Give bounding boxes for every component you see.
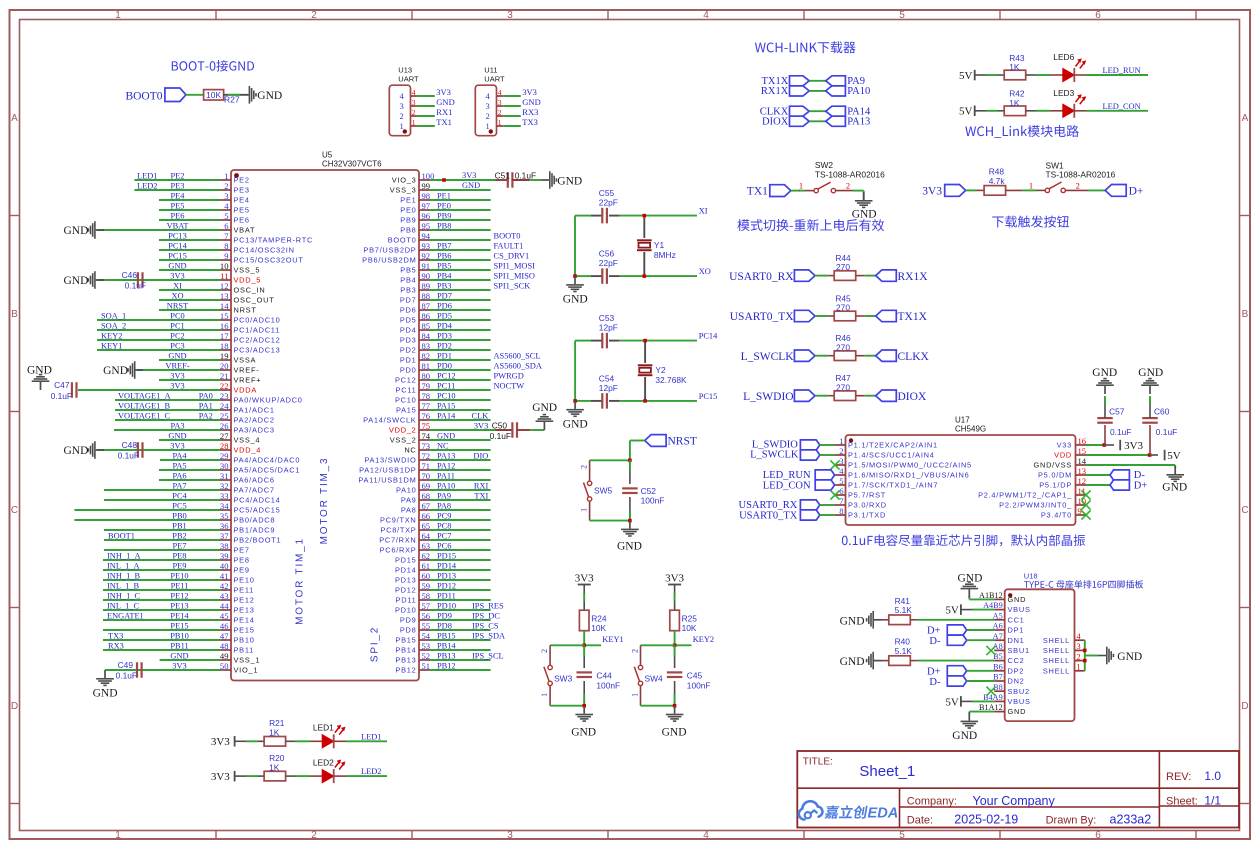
svg-text:2: 2 [839, 446, 843, 456]
port L_SWCLK [741, 350, 815, 363]
svg-text:VDD_5: VDD_5 [234, 276, 262, 285]
U5 pin 9 (PC15/OSC32OUT) wire and labels [159, 251, 304, 265]
svg-text:PA6: PA6 [172, 472, 186, 481]
svg-text:81: 81 [422, 361, 431, 371]
svg-text:51: 51 [422, 661, 431, 671]
svg-text:270: 270 [836, 382, 850, 392]
ground GND below C45 [662, 706, 687, 739]
svg-text:10K: 10K [682, 623, 697, 633]
svg-text:PA3: PA3 [170, 422, 184, 431]
IC U18 TYPE-C connector body [1005, 572, 1144, 722]
U18 pin A8 (SBU1) [993, 642, 1030, 655]
svg-text:VDD_4: VDD_4 [234, 446, 262, 455]
svg-text:PE14: PE14 [170, 612, 189, 621]
svg-text:DIO: DIO [473, 451, 488, 460]
LED LED2 [313, 758, 346, 784]
ground GND at U5 pin 11 [63, 271, 104, 289]
svg-text:R48: R48 [989, 167, 1005, 177]
svg-text:PC2/ADC12: PC2/ADC12 [234, 336, 281, 345]
U18 pin B1A12 (GND) [979, 703, 1026, 716]
svg-text:41: 41 [220, 571, 229, 581]
U5 pin 60 (PD13) wire and labels [395, 571, 491, 585]
U17 pin 15 (VDD) [1054, 446, 1086, 460]
svg-text:Y2: Y2 [655, 365, 666, 375]
svg-text:PE9: PE9 [173, 562, 187, 571]
svg-text:KEY1: KEY1 [602, 635, 623, 644]
svg-text:LED6: LED6 [1053, 52, 1074, 62]
svg-text:2: 2 [631, 649, 640, 653]
svg-text:64: 64 [422, 531, 431, 541]
port USART0_RX [729, 270, 815, 283]
svg-text:RX3: RX3 [108, 642, 124, 651]
svg-text:87: 87 [422, 301, 431, 311]
resistor R48 4.7k [984, 167, 1006, 196]
svg-text:VREF-: VREF- [234, 366, 260, 375]
svg-text:GND: GND [103, 365, 128, 377]
svg-text:BOOT0: BOOT0 [388, 236, 417, 245]
port pair RX1X to PA10 [761, 86, 870, 97]
U5 pin 23 (PA0/WKUP/ADC0) wire and labels [115, 391, 303, 405]
svg-text:1: 1 [580, 508, 589, 512]
svg-text:Sheet_1: Sheet_1 [859, 763, 915, 780]
svg-text:INH_1_B: INH_1_B [107, 572, 140, 581]
svg-text:GND: GND [436, 97, 454, 107]
wire U18 pin A1B12 to ground above [969, 596, 994, 599]
svg-text:USART0_RX: USART0_RX [739, 500, 798, 511]
svg-text:TS-1088-AR02016: TS-1088-AR02016 [1046, 170, 1116, 180]
svg-text:RX1X: RX1X [761, 86, 789, 97]
svg-text:LED1: LED1 [137, 172, 157, 181]
svg-text:A: A [11, 113, 18, 124]
svg-text:V33: V33 [1057, 441, 1072, 450]
svg-text:1: 1 [486, 121, 490, 131]
port D+ at SW1 [1105, 185, 1143, 198]
svg-text:U17: U17 [955, 416, 970, 425]
wire R41 to U18 CC1 [910, 619, 994, 621]
U5 pin 34 (PC5/ADC15) wire and labels [74, 501, 280, 515]
svg-text:PE14: PE14 [234, 616, 255, 625]
svg-text:PC4/ADC14: PC4/ADC14 [234, 496, 281, 505]
svg-text:23: 23 [220, 391, 229, 401]
svg-text:0.1uF: 0.1uF [490, 431, 511, 441]
svg-text:PB4: PB4 [437, 271, 452, 280]
svg-text:GND: GND [563, 294, 588, 306]
svg-text:PA13/SWDIO: PA13/SWDIO [364, 456, 416, 465]
svg-text:12: 12 [220, 281, 229, 291]
svg-text:C44: C44 [596, 671, 612, 681]
svg-text:32: 32 [220, 481, 229, 491]
svg-text:3V3: 3V3 [575, 572, 594, 584]
svg-text:D-: D- [929, 636, 941, 647]
svg-text:3V3: 3V3 [665, 572, 684, 584]
svg-text:VBUS: VBUS [1008, 697, 1031, 706]
svg-text:TX1: TX1 [436, 117, 452, 127]
svg-text:PA1: PA1 [199, 402, 213, 411]
svg-text:PD6: PD6 [437, 301, 452, 310]
svg-text:22pF: 22pF [599, 258, 618, 268]
svg-text:C55: C55 [599, 188, 615, 198]
svg-text:0.1uF: 0.1uF [515, 171, 536, 181]
svg-text:VDD: VDD [1054, 451, 1072, 460]
svg-text:PB0: PB0 [172, 512, 186, 521]
U5 pin 53 (PB14) wire and labels [395, 641, 490, 655]
svg-text:PE13: PE13 [170, 602, 188, 611]
svg-text:2: 2 [400, 111, 404, 121]
svg-text:PB14: PB14 [437, 641, 456, 650]
svg-text:DP1: DP1 [1008, 626, 1025, 635]
svg-text:33: 33 [220, 491, 229, 501]
U5 pin 68 (PA9) wire and labels [401, 491, 491, 505]
svg-text:5: 5 [899, 830, 905, 841]
U5 pin 55 (PD8) wire and labels [400, 621, 499, 635]
svg-text:PD6: PD6 [400, 306, 417, 315]
wire XI top rail [575, 215, 697, 217]
svg-text:PE2: PE2 [234, 176, 250, 185]
U5 pin 15 (PC0/ADC10) wire and labels [97, 311, 281, 325]
svg-text:4: 4 [224, 201, 229, 211]
svg-text:PB12: PB12 [437, 661, 456, 670]
wire PC15 bottom rail [575, 400, 697, 402]
svg-text:1: 1 [115, 10, 121, 21]
svg-text:58: 58 [422, 591, 431, 601]
ground GND below SW2 [852, 191, 877, 221]
svg-text:35: 35 [220, 511, 229, 521]
section caption 下载触发按钮 [992, 216, 1069, 228]
svg-text:VSS_4: VSS_4 [234, 436, 261, 445]
port pair USART0_RX USART0_TX at U17 [739, 500, 835, 521]
svg-text:PA5: PA5 [172, 462, 186, 471]
U5 pin 56 (PD9) wire and labels [400, 611, 500, 625]
svg-text:86: 86 [422, 311, 431, 321]
U5 pin 73 (NC) wire and labels [404, 441, 490, 455]
svg-text:P3.0/RXD: P3.0/RXD [848, 501, 887, 510]
wire R25 to junction / net label KEY2 [673, 631, 714, 647]
svg-text:2025-02-19: 2025-02-19 [954, 812, 1018, 826]
svg-text:VSS_5: VSS_5 [234, 266, 261, 275]
svg-text:Company:: Company: [907, 796, 957, 808]
svg-text:MOTOR TIM_3: MOTOR TIM_3 [319, 457, 330, 545]
svg-text:GND: GND [170, 652, 188, 661]
svg-text:SW2: SW2 [815, 160, 833, 170]
svg-text:75: 75 [422, 421, 431, 431]
capacitor C55 22pF [599, 188, 618, 223]
svg-text:PA13: PA13 [847, 117, 870, 128]
svg-text:SW5: SW5 [594, 486, 612, 496]
svg-text:1K: 1K [1009, 98, 1020, 108]
svg-text:NRST: NRST [167, 302, 188, 311]
junction dots Y1 [573, 214, 646, 278]
svg-text:2: 2 [311, 10, 317, 21]
U17 pin 8 (P3.1/TXD) [835, 506, 886, 520]
svg-text:4: 4 [703, 10, 709, 21]
svg-text:PC1: PC1 [170, 322, 184, 331]
U5 pin 51 (PB12) wire and labels [395, 661, 490, 675]
U18 pin 3 (SHELL) [1043, 642, 1085, 655]
svg-text:GND: GND [662, 727, 687, 739]
svg-text:P3.4/T0: P3.4/T0 [1041, 511, 1072, 520]
svg-text:PA9: PA9 [437, 491, 451, 500]
resistor R41 5.1K [889, 596, 912, 625]
U5 pin 82 (PD1) wire and labels [400, 351, 541, 365]
svg-text:5V: 5V [945, 605, 959, 617]
svg-text:GND: GND [168, 432, 186, 441]
svg-text:8MHz: 8MHz [654, 250, 676, 260]
svg-text:XI: XI [173, 282, 182, 291]
svg-text:OSC_OUT: OSC_OUT [234, 296, 275, 305]
U5 pin 94 (BOOT0) wire and labels [388, 231, 521, 245]
svg-text:PWRGD: PWRGD [494, 371, 524, 380]
svg-text:68: 68 [422, 491, 431, 501]
svg-text:PE5: PE5 [171, 202, 185, 211]
svg-text:KEY1: KEY1 [101, 342, 122, 351]
svg-text:TX1X: TX1X [898, 311, 928, 323]
svg-text:13: 13 [220, 291, 229, 301]
svg-text:PE8: PE8 [173, 552, 187, 561]
svg-text:3: 3 [507, 830, 513, 841]
capacitor C51 0.1uF [495, 171, 541, 188]
svg-text:KEY2: KEY2 [101, 332, 122, 341]
svg-text:24: 24 [220, 401, 229, 411]
U18 pin 2 (SHELL) [1043, 652, 1085, 665]
svg-text:PD0: PD0 [437, 361, 452, 370]
svg-text:VOLTAGE1_C: VOLTAGE1_C [118, 412, 170, 421]
ground GND above C50 [532, 402, 557, 430]
wire U17 V33 to 3V3 [1086, 443, 1114, 447]
svg-text:BOOT1: BOOT1 [108, 532, 135, 541]
switch SW1 TS-1088-AR02016 [1006, 161, 1116, 193]
U5 pin 25 (PA2/ADC2) wire and labels [115, 411, 275, 425]
svg-text:PA8: PA8 [401, 506, 417, 515]
svg-text:GND: GND [563, 419, 588, 431]
svg-text:INL_1_C: INL_1_C [107, 602, 140, 611]
svg-text:PC11: PC11 [437, 381, 455, 390]
U5 pin 90 (PB4) wire and labels [400, 271, 535, 285]
svg-text:PB9: PB9 [437, 211, 451, 220]
svg-text:22: 22 [220, 381, 229, 391]
svg-text:3V3: 3V3 [922, 186, 942, 198]
ground GND above C47 [27, 365, 52, 391]
svg-text:5V: 5V [959, 70, 973, 82]
svg-text:76: 76 [422, 411, 431, 421]
svg-text:PC14: PC14 [699, 332, 718, 341]
svg-text:PA5/ADC5/DAC1: PA5/ADC5/DAC1 [234, 466, 301, 475]
wire R20 to LED2 [286, 775, 324, 777]
svg-text:32.768K: 32.768K [655, 375, 687, 385]
svg-text:LED2: LED2 [137, 182, 157, 191]
U5 pin 38 (PE7) wire and labels [104, 541, 250, 555]
svg-text:3: 3 [1077, 642, 1081, 651]
svg-text:GND: GND [1162, 482, 1187, 494]
svg-text:29: 29 [220, 451, 229, 461]
svg-text:PB2: PB2 [172, 532, 186, 541]
section title BOOT-0接GND [172, 60, 254, 72]
wire L_SWCLK to R46 [815, 355, 834, 357]
svg-text:0.1uF: 0.1uF [118, 451, 139, 461]
svg-text:PB4: PB4 [400, 276, 416, 285]
U5 pin 54 (PB15) wire and labels [395, 631, 505, 645]
svg-text:PD8: PD8 [437, 621, 452, 630]
U5 pin 58 (PD11) wire and labels [396, 591, 491, 605]
wire R46 to port CLKX [856, 355, 876, 357]
svg-text:1K: 1K [269, 762, 280, 772]
svg-text:SHELL: SHELL [1043, 656, 1070, 665]
U18 pin A4B9 (VBUS) [983, 601, 1031, 614]
svg-text:DN2: DN2 [1008, 677, 1025, 686]
svg-text:D+: D+ [927, 626, 941, 637]
wire 3V3 port to R48 [966, 189, 984, 191]
svg-text:GND: GND [93, 688, 118, 700]
U5 pin 99 (VSS_3) wire and labels [390, 181, 491, 195]
power 5V at R43 [959, 70, 976, 82]
svg-text:3: 3 [400, 101, 404, 111]
svg-text:TS-1088-AR02016: TS-1088-AR02016 [815, 170, 885, 180]
svg-text:5V: 5V [1167, 450, 1181, 462]
svg-text:36: 36 [220, 521, 229, 531]
U5 pin 6 (VBAT) wire and labels [97, 221, 255, 235]
svg-text:100nF: 100nF [596, 681, 620, 691]
svg-text:3: 3 [486, 101, 490, 111]
svg-text:PC9/TXN: PC9/TXN [380, 516, 416, 525]
ground GND left of R40 [840, 652, 889, 670]
svg-text:REV:: REV: [1166, 771, 1191, 783]
svg-text:GND: GND [168, 262, 186, 271]
svg-text:28: 28 [220, 441, 229, 451]
svg-text:2: 2 [1077, 652, 1081, 661]
svg-text:B6: B6 [993, 662, 1003, 671]
svg-text:PE3: PE3 [234, 186, 250, 195]
svg-text:39: 39 [220, 551, 229, 561]
svg-text:U18: U18 [1024, 572, 1038, 581]
svg-text:PB8: PB8 [400, 226, 416, 235]
resistor R21 1K [264, 718, 286, 746]
wire USART0_RX to R44 [815, 275, 834, 277]
svg-text:GND: GND [1092, 367, 1117, 379]
svg-text:PC12: PC12 [395, 376, 417, 385]
switch SW2 TS-1088-AR02016 [799, 160, 885, 193]
svg-text:2: 2 [311, 830, 317, 841]
svg-text:38: 38 [220, 541, 229, 551]
svg-text:PC0/ADC10: PC0/ADC10 [234, 316, 281, 325]
resistor R25 10K [670, 610, 698, 633]
ground GND at U18 SHELL [1106, 647, 1142, 665]
svg-text:PA3/ADC3: PA3/ADC3 [234, 426, 275, 435]
svg-text:CH32V307VCT6: CH32V307VCT6 [322, 160, 382, 169]
wire R42 to LED3 [1026, 110, 1064, 112]
svg-text:3: 3 [498, 98, 502, 107]
svg-text:GND: GND [852, 209, 877, 221]
svg-text:PE5: PE5 [234, 206, 250, 215]
svg-text:LED_RUN: LED_RUN [763, 470, 811, 481]
svg-text:49: 49 [220, 651, 229, 661]
svg-text:C52: C52 [641, 486, 657, 496]
U5 pin 79 (PC11) wire and labels [396, 381, 525, 395]
svg-text:U5: U5 [322, 151, 333, 160]
U5 pin 22 (VDDA) wire and labels [78, 381, 257, 395]
svg-text:CLKX: CLKX [898, 351, 930, 363]
capacitor C50 0.1uF [490, 421, 545, 441]
svg-text:91: 91 [422, 261, 431, 271]
svg-text:SHELL: SHELL [1043, 666, 1070, 675]
svg-text:PE4: PE4 [171, 192, 186, 201]
U17 pin 9 (P3.4/T0) [1041, 506, 1086, 520]
U5 pin 44 (PE13) wire and labels [103, 601, 255, 615]
svg-text:73: 73 [422, 441, 431, 451]
svg-text:PC6/RXP: PC6/RXP [380, 546, 417, 555]
port NRST [645, 435, 697, 448]
capacitor C45 100nF [667, 645, 711, 705]
U5 pin 24 (PA1/ADC1) wire and labels [115, 401, 275, 415]
svg-text:RX3: RX3 [522, 107, 538, 117]
svg-text:PC9: PC9 [437, 511, 451, 520]
svg-text:CC2: CC2 [1008, 656, 1025, 665]
svg-text:SPI1_MOSI: SPI1_MOSI [494, 261, 536, 270]
svg-text:VREF+: VREF+ [234, 376, 262, 385]
port TX1 [747, 185, 791, 198]
svg-text:PE1: PE1 [437, 191, 451, 200]
U5 pin 100 (VIO_3) wire and labels [392, 171, 496, 185]
no-connect X at U18 SBU2 [986, 687, 995, 696]
svg-text:PC3/ADC13: PC3/ADC13 [234, 346, 281, 355]
svg-text:3: 3 [224, 191, 228, 201]
svg-text:PB2/BOOT1: PB2/BOOT1 [234, 536, 282, 545]
svg-text:14: 14 [220, 301, 229, 311]
svg-text:15: 15 [1078, 446, 1087, 456]
wire 5V to R43 [975, 74, 1004, 76]
svg-text:PE9: PE9 [234, 566, 250, 575]
svg-text:6: 6 [1095, 830, 1101, 841]
U5 pin 42 (PE11) wire and labels [103, 581, 254, 595]
svg-text:GND: GND [617, 541, 642, 553]
svg-text:PD4: PD4 [400, 326, 417, 335]
svg-text:PD7: PD7 [437, 291, 452, 300]
svg-text:PE3: PE3 [171, 182, 185, 191]
svg-text:PB11: PB11 [234, 646, 255, 655]
svg-text:P5.0/DM: P5.0/DM [1038, 471, 1072, 480]
svg-text:PB6/USB2DM: PB6/USB2DM [362, 256, 416, 265]
port pair L_SWDIO L_SWCLK at U17 [750, 440, 835, 461]
svg-text:C47: C47 [54, 380, 70, 390]
power 3V3 at R21 [211, 736, 236, 748]
capacitor C52 100nF [622, 460, 664, 520]
U5 internal label MOTOR TIM_3 [319, 457, 330, 545]
svg-text:PA15: PA15 [437, 401, 455, 410]
svg-text:9: 9 [224, 251, 228, 261]
svg-text:IPS_SDA: IPS_SDA [472, 631, 505, 640]
power 5V at U18 VBUS bottom [945, 696, 994, 708]
svg-text:VSSA: VSSA [234, 356, 257, 365]
port RX1X [876, 270, 929, 283]
svg-text:LED1: LED1 [361, 732, 381, 741]
svg-text:D+: D+ [1134, 481, 1148, 492]
capacitor C54 12pF [599, 374, 618, 409]
svg-text:GND: GND [571, 727, 596, 739]
svg-text:VSS_1: VSS_1 [234, 656, 261, 665]
svg-text:C48: C48 [122, 440, 138, 450]
svg-text:40: 40 [220, 561, 229, 571]
JLC EDA logo [799, 801, 899, 821]
svg-text:8: 8 [224, 241, 228, 251]
svg-text:VBAT: VBAT [234, 226, 256, 235]
svg-text:Date:: Date: [907, 814, 933, 826]
wire SHELL bus [1083, 640, 1106, 671]
svg-text:5V: 5V [945, 696, 959, 708]
U18 pin B4A9 (VBUS) [983, 693, 1031, 706]
svg-text:PE11: PE11 [171, 582, 189, 591]
U5 pin 13 (OSC_OUT) wire and labels [159, 291, 274, 305]
wire SW4 bottom branch [641, 704, 677, 708]
svg-text:NRST: NRST [234, 306, 257, 315]
svg-text:PD15: PD15 [395, 556, 417, 565]
